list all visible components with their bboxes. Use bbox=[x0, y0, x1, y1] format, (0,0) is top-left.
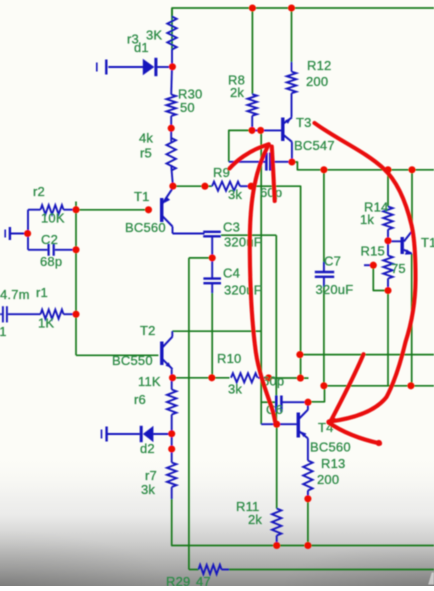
svg-text:r7: r7 bbox=[145, 468, 157, 483]
svg-text:68p: 68p bbox=[40, 254, 62, 269]
svg-text:1k: 1k bbox=[360, 212, 374, 227]
svg-text:4.7m: 4.7m bbox=[0, 287, 30, 302]
svg-text:50: 50 bbox=[180, 100, 195, 115]
svg-text:T2: T2 bbox=[140, 323, 156, 338]
svg-text:3k: 3k bbox=[141, 482, 155, 497]
svg-text:4k: 4k bbox=[139, 131, 153, 146]
svg-text:60p: 60p bbox=[260, 185, 282, 200]
svg-text:T1: T1 bbox=[134, 189, 150, 204]
svg-text:T3: T3 bbox=[296, 115, 312, 130]
svg-text:75: 75 bbox=[391, 261, 406, 276]
svg-text:320uF: 320uF bbox=[316, 282, 354, 297]
svg-text:C3: C3 bbox=[223, 220, 240, 235]
svg-text:C7: C7 bbox=[324, 254, 341, 269]
svg-text:R12: R12 bbox=[307, 58, 331, 73]
svg-text:r2: r2 bbox=[33, 184, 45, 199]
svg-text:d1: d1 bbox=[134, 40, 149, 55]
svg-text:BC547: BC547 bbox=[294, 138, 335, 153]
svg-text:r6: r6 bbox=[134, 392, 146, 407]
svg-text:BC550: BC550 bbox=[112, 353, 153, 368]
svg-text:d2: d2 bbox=[140, 441, 155, 456]
svg-text:11K: 11K bbox=[138, 374, 161, 389]
svg-text:3k: 3k bbox=[228, 382, 242, 397]
svg-text:1K: 1K bbox=[38, 316, 54, 331]
svg-text:47: 47 bbox=[196, 574, 211, 586]
svg-text:C4: C4 bbox=[223, 266, 240, 281]
svg-text:200: 200 bbox=[306, 74, 328, 89]
svg-text:320uF: 320uF bbox=[224, 283, 262, 298]
svg-text:R10: R10 bbox=[217, 351, 241, 366]
svg-text:C2: C2 bbox=[41, 232, 58, 247]
svg-text:2k: 2k bbox=[230, 85, 244, 100]
svg-text:BC560: BC560 bbox=[125, 220, 166, 235]
svg-text:320uF: 320uF bbox=[224, 235, 262, 250]
svg-text:r5: r5 bbox=[140, 146, 152, 161]
svg-text:R29: R29 bbox=[166, 574, 190, 586]
svg-text:2k: 2k bbox=[248, 512, 262, 527]
svg-text:r1: r1 bbox=[36, 285, 48, 300]
svg-text:BC560: BC560 bbox=[310, 440, 351, 455]
svg-text:R15: R15 bbox=[361, 244, 385, 259]
svg-text:R9: R9 bbox=[213, 165, 230, 180]
svg-text:3k: 3k bbox=[228, 187, 242, 202]
svg-text:200: 200 bbox=[317, 472, 339, 487]
svg-text:c1: c1 bbox=[0, 324, 7, 339]
svg-text:T1: T1 bbox=[421, 235, 434, 250]
svg-text:R13: R13 bbox=[321, 456, 345, 471]
svg-text:10K: 10K bbox=[41, 211, 65, 226]
